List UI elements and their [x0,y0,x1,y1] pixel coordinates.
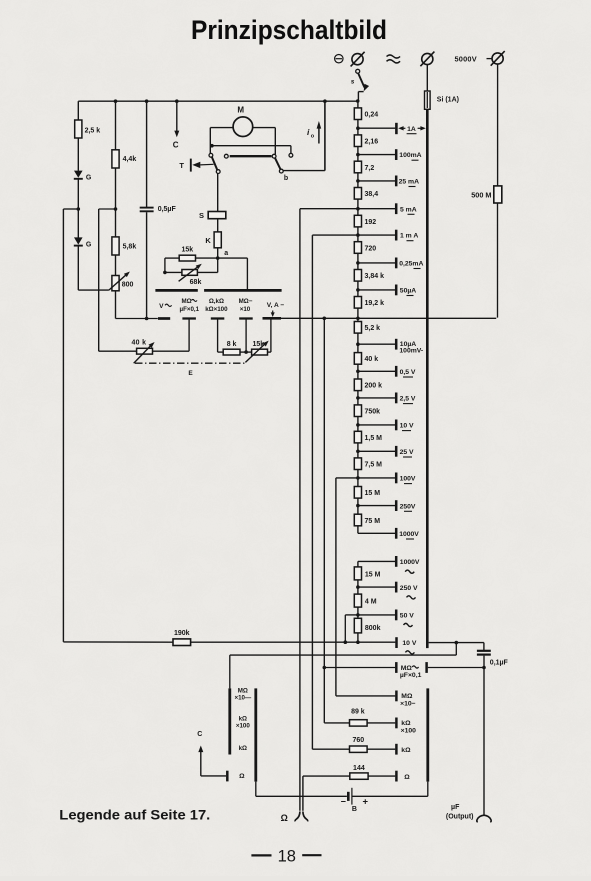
svg-text:50 V: 50 V [400,613,414,620]
resistor 760 [350,737,396,752]
caption Legende auf Seite 17. [59,807,210,823]
tap 1mA [356,230,418,241]
svg-text:750k: 750k [365,409,381,416]
wire 1mA branch left [312,234,358,236]
svg-text:Prinzipschaltbild: Prinzipschaltbild [191,15,387,45]
svg-text:250V: 250V [400,503,416,510]
svg-text:+: + [363,797,369,808]
contact V~ [158,317,170,320]
svg-text:25 mA: 25 mA [399,179,419,186]
tap 25V [356,446,414,457]
resistor 200 k [354,364,382,390]
svg-text:800: 800 [122,281,134,288]
tap 250V~ [356,580,418,599]
resistor 19,2 k [354,281,384,308]
svg-text:10 V: 10 V [402,640,416,647]
page number 18 [251,847,321,865]
svg-text:2,5 V: 2,5 V [400,396,416,403]
svg-text:5,2 k: 5,2 k [365,325,381,332]
resistor 5,8k [112,237,136,255]
svg-text:68k: 68k [190,279,202,286]
tap 50uA [356,285,416,296]
svg-text:75 M: 75 M [365,518,381,525]
svg-text:s: s [351,78,355,85]
svg-text:192: 192 [365,219,377,226]
resistor 500M [471,186,502,203]
svg-text:3,84 k: 3,84 k [365,273,385,280]
battery B [256,782,428,814]
wire blade a to S [217,173,219,211]
svg-text:µF: µF [451,804,460,811]
resistor 750k [354,391,380,417]
svg-text:7,2: 7,2 [365,165,375,172]
switch blade a (left relay blade) [209,153,220,173]
svg-text:×100: ×100 [236,723,250,730]
svg-text:Si (1A): Si (1A) [437,97,459,104]
svg-text:Ω: Ω [281,813,288,823]
label kOhm x100 (bottom left) [236,715,250,729]
svg-text:C: C [197,731,202,738]
resistor K [205,232,221,248]
relay contact bar [224,154,276,158]
resistor 3,84 k [354,253,384,281]
wire branch left vertical [163,258,167,274]
svg-text:2,5 k: 2,5 k [85,128,101,135]
svg-text:1000V: 1000V [400,559,420,566]
meter M (moving coil instrument) [210,105,275,154]
svg-text:15 M: 15 M [365,490,381,497]
svg-text:MΩ: MΩ [238,687,248,694]
svg-text:kΩ: kΩ [239,715,247,722]
svg-text:µF×0,1: µF×0,1 [180,306,200,313]
wire diode junction [63,179,80,211]
switch bar far right tall (range group) [426,688,429,781]
wire line C (MOhm~ uFx0,1) [323,662,486,679]
tap 1000V~ (AC chain top) [358,556,420,573]
title Prinzipschaltbild [191,15,387,45]
potentiometer 40k (adjustable) [99,340,189,364]
svg-text:E: E [188,370,193,377]
label MOhm- x10 [239,298,253,313]
wire K to node a [217,248,219,258]
label 5000V and terminal jack T3 [455,51,505,66]
svg-text:(Output): (Output) [446,813,474,820]
resistor 4,4k [112,99,136,168]
wire 19,2k to bus [357,308,359,318]
wire chain top [357,101,359,108]
svg-text:500 M: 500 M [471,190,491,199]
wire 10V~ right segment to 0,1uF [429,641,484,645]
svg-text:Ω: Ω [239,773,245,780]
label V~ [159,303,172,310]
diode G2 [74,209,92,248]
svg-text:720: 720 [365,245,377,252]
svg-text:100mA: 100mA [399,152,421,159]
svg-text:−: − [341,796,346,806]
tap 50V~ and 800k bypass [345,607,414,642]
capacitor 0,1uF [477,643,509,668]
resistor 800k (AC) [354,618,380,642]
svg-text:38,4: 38,4 [365,191,379,198]
svg-text:5000V: 5000V [455,54,477,63]
svg-text:MΩ−: MΩ− [239,298,253,305]
contact kOhm x100 [396,718,416,735]
resistor 190k [63,630,190,645]
wire main bus [281,317,496,321]
resistor 4 M (AC) [354,594,376,607]
resistor 15 M (AC) [354,567,380,580]
terminal jack T1 (common) [351,52,365,67]
svg-text:5,8k: 5,8k [123,243,137,250]
wire top bus [78,99,359,103]
potentiometer 800 (adjustable) [109,255,134,291]
svg-text:1000V: 1000V [399,531,419,538]
svg-text:1A: 1A [407,126,416,133]
svg-text:7,5 M: 7,5 M [365,462,383,469]
tap 0,5V [356,366,416,377]
svg-text:S: S [199,211,204,220]
svg-text:kΩ×100: kΩ×100 [205,306,228,313]
svg-text:kΩ: kΩ [239,745,247,752]
resistor 7,5 M [354,443,382,470]
resistor 15 M [354,470,380,499]
resistor 5,2 k [354,318,380,333]
wire 100V to MOhmx10 contact [336,478,395,696]
switch bar right tall (lower group) [254,688,257,781]
contact kOhm [396,744,411,755]
contact MOhm~ (to 40k) [182,319,196,352]
node a [216,250,228,260]
tap 25mA [356,176,419,187]
svg-text:15k: 15k [252,341,264,348]
label MOhm~ uFx0,1 [180,298,200,313]
tap 0,25mA [356,258,423,269]
diode G1 [74,138,92,182]
wire Ohm contact line down [302,776,304,811]
svg-text:144: 144 [353,765,365,772]
svg-text:T: T [179,161,184,170]
svg-text:a: a [224,250,228,257]
svg-text:MΩ: MΩ [401,665,413,672]
wire 10V~ line (A) [191,640,396,644]
shunt S [199,211,226,220]
svg-text:100V: 100V [400,476,416,483]
svg-text:15k: 15k [181,247,193,254]
resistor 144 [303,765,395,779]
svg-text:760: 760 [352,737,364,744]
svg-text:M: M [237,105,244,114]
resistor 89k [350,708,396,726]
label i0 current arrow [307,121,321,144]
resistor 38,4 [354,173,378,199]
AC symbol (approx equals tildes) [387,55,401,63]
label V, A - [267,302,285,309]
mechanical coupling E (dash-dot line) [135,363,245,377]
svg-text:Ω: Ω [404,774,410,781]
svg-text:8 k: 8 k [227,341,237,348]
svg-text:200 k: 200 k [365,383,383,390]
contact T (push button) [179,159,213,172]
svg-text:B: B [352,806,357,813]
switch wafer bar 2 [204,289,282,292]
svg-text:250 V: 250 V [400,585,418,592]
contact MOhm x10- [396,691,415,708]
svg-text:kΩ: kΩ [401,720,411,727]
svg-text:×10: ×10 [240,306,251,313]
svg-text:15 M: 15 M [365,571,381,578]
label Ohm,kOhm kOhmx100 [205,298,228,313]
wire bus to blade b [283,99,327,170]
svg-text:800k: 800k [365,625,381,632]
terminal uF Output (socket) [446,804,491,822]
svg-text:MΩ: MΩ [401,693,413,700]
wire bus to kOhmx100 contact [324,318,349,723]
wire 5mA branch left [300,208,358,210]
wire 1A measuring bus (thick vertical) [426,109,429,648]
svg-text:2,16: 2,16 [365,139,379,146]
resistor 192 [354,199,376,227]
tap 100V [356,473,416,484]
svg-text:0,1µF: 0,1µF [490,659,509,666]
capacitor 0,5uF [140,99,177,318]
wire 5000V branch [497,64,499,186]
label kOhm (bottom left) [239,745,247,752]
tap 10V~ (contact pair at 1A bus end) [397,637,417,654]
svg-text:10 V: 10 V [400,423,414,430]
svg-text:0,5 V: 0,5 V [400,369,416,376]
tap 100mA [356,149,422,160]
wire 1mA to kOhm contact [312,235,349,749]
svg-text:25 V: 25 V [400,449,414,456]
switch blade b (right relay blade) [275,158,288,183]
svg-text:C: C [173,141,179,150]
svg-text:5 mA: 5 mA [400,206,417,213]
potentiometer 68k (adjustable) [165,258,218,286]
resistor 7,2 [354,147,374,173]
wire 4,4k junction to 40k branch [99,168,118,351]
resistor 720 [354,227,376,253]
svg-text:MΩ: MΩ [182,298,192,305]
wire 500M to bus [496,203,497,318]
label Ohm (bottom left) [239,773,245,780]
svg-text:0,25mA: 0,25mA [399,261,423,268]
svg-text:Ω,kΩ: Ω,kΩ [209,298,224,305]
svg-text:0,24: 0,24 [365,112,379,119]
tap 1000V (chain end) [358,526,419,539]
svg-text:V, A −: V, A − [267,302,285,309]
svg-text:Legende auf Seite 17.: Legende auf Seite 17. [59,807,210,823]
svg-text:4,4k: 4,4k [123,156,137,163]
svg-text:µF×0,1: µF×0,1 [400,672,422,679]
svg-text:kΩ: kΩ [401,747,411,754]
resistor 2,16 [354,120,378,147]
wire relay coil line [210,144,293,157]
node C (bottom, arrow up) [197,731,227,782]
svg-text:100mV-: 100mV- [399,348,423,355]
wire G2 to wiper of 800 [78,245,109,290]
wire 100V branch left [336,477,358,479]
svg-text:190k: 190k [174,630,190,637]
svg-text:19,2 k: 19,2 k [365,300,385,307]
svg-text:18: 18 [278,847,296,865]
svg-text:1 m A: 1 m A [400,233,418,240]
contact V,A with arrow [263,311,282,319]
svg-text:0,5µF: 0,5µF [158,206,177,213]
wire 5mA to Ohm terminal (long vertical) [299,209,301,811]
node C (coil connection, arrow down) [173,99,180,149]
potentiometer 15k selector (adjustable) [245,319,271,363]
resistor 1,5 M [354,417,382,443]
wire node a to wafer bar 2 [246,258,248,289]
svg-text:50µA: 50µA [400,288,416,295]
svg-text:V: V [159,303,164,310]
svg-text:4 M: 4 M [365,599,377,606]
resistor 2,5k [75,101,101,138]
contact Ohm (right) [396,771,410,782]
tap 10uA 100mV- [356,339,423,355]
switch s (mains selector blade) [351,69,369,101]
resistor 15k [165,247,248,261]
switch wafer bar 1 [155,289,197,292]
terminal Ohm (socket) [281,812,308,823]
wire line B (output coupling) [230,643,456,689]
contact MOhm- (to junction) [239,319,253,353]
tap 1A (fuse link arrows) [356,123,426,134]
svg-text:40 k: 40 k [131,340,146,347]
label MOhm x10- (bottom left) [234,687,251,701]
svg-text:×10—: ×10— [234,695,251,702]
resistor 40 k [354,333,378,364]
svg-text:×10−: ×10− [400,700,416,707]
minus symbol (circled minus) [335,55,343,63]
wire 800 to V~ contact [116,291,158,321]
tap 2,5V [356,393,416,404]
svg-text:×100: ×100 [401,727,417,734]
tap 10V [356,420,414,431]
svg-text:1,5 M: 1,5 M [365,435,383,442]
wire output vertical [483,668,485,816]
resistor 8k [223,341,248,355]
switch bar left tall (MOhm-kOhm group) [228,688,231,754]
svg-text:40 k: 40 k [365,356,379,363]
svg-text:K: K [205,236,211,245]
resistor 75 M [354,498,380,526]
tap 250V [356,500,416,511]
contact Ohm,kOhm (to 8k) [211,319,225,353]
svg-text:G: G [86,241,92,248]
svg-text:b: b [284,175,288,182]
wire long left vertical [62,209,64,642]
wire S to K [217,219,219,232]
terminal jack T2 (1A fused input) [420,52,434,67]
svg-text:89 k: 89 k [351,708,365,715]
fuse Si (1A) [425,65,459,110]
tap 5mA [356,203,417,214]
svg-text:G: G [86,175,92,182]
resistor 0,24 [354,108,378,120]
